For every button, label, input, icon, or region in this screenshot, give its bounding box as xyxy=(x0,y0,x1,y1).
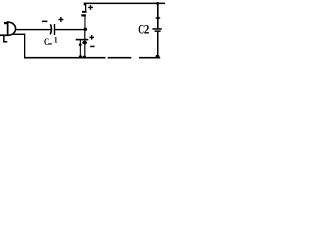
svg-text:1: 1 xyxy=(54,36,58,45)
svg-text:C: C xyxy=(44,36,49,47)
svg-text:2: 2 xyxy=(144,23,150,37)
